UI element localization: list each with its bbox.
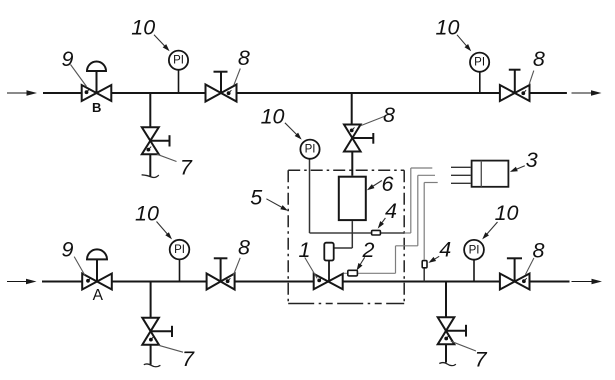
svg-text:PI: PI: [469, 244, 480, 256]
svg-text:8: 8: [533, 239, 545, 263]
svg-text:4: 4: [439, 237, 451, 261]
svg-text:4: 4: [385, 199, 397, 223]
svg-text:8: 8: [533, 47, 545, 71]
svg-text:PI: PI: [305, 144, 316, 156]
svg-text:6: 6: [382, 172, 394, 196]
svg-text:7: 7: [475, 348, 488, 372]
svg-text:2: 2: [362, 238, 375, 262]
svg-text:10: 10: [495, 201, 519, 225]
svg-text:1: 1: [299, 238, 311, 262]
svg-text:8: 8: [238, 236, 250, 260]
svg-text:A: A: [93, 287, 104, 304]
svg-text:B: B: [92, 100, 101, 115]
svg-text:PI: PI: [173, 55, 184, 67]
svg-text:PI: PI: [174, 244, 185, 256]
svg-text:8: 8: [238, 46, 250, 70]
svg-text:10: 10: [436, 16, 460, 40]
svg-text:10: 10: [261, 105, 285, 129]
svg-text:7: 7: [182, 347, 195, 371]
svg-text:9: 9: [62, 238, 74, 262]
svg-text:3: 3: [526, 148, 538, 172]
svg-text:9: 9: [62, 47, 74, 71]
svg-text:PI: PI: [474, 57, 485, 69]
svg-text:5: 5: [250, 185, 263, 209]
svg-text:10: 10: [131, 16, 155, 40]
svg-text:10: 10: [135, 202, 159, 226]
svg-text:7: 7: [180, 155, 193, 179]
svg-text:8: 8: [383, 103, 395, 127]
